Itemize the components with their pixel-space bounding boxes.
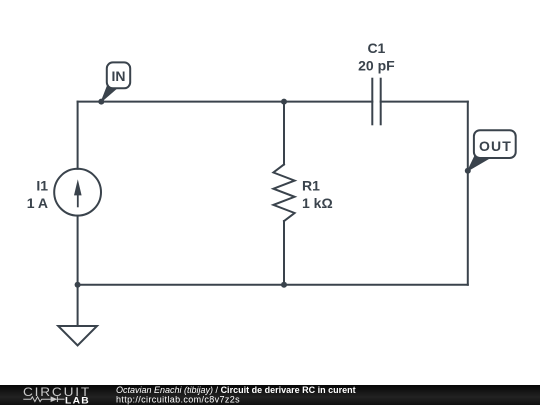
- net label OUT box: [474, 130, 516, 158]
- net label IN flag tail: [101, 84, 117, 102]
- svg-text:OUT: OUT: [479, 138, 512, 154]
- current source I1 arrow: [74, 179, 82, 207]
- wire top net IN horizontal: [78, 101, 373, 103]
- svg-text:I1: I1: [36, 178, 48, 194]
- wire middle vertical top (to R1): [283, 102, 285, 165]
- wire left vertical bottom (I1 to ground junction): [77, 216, 79, 326]
- svg-text:IN: IN: [112, 68, 126, 84]
- svg-text:LAB: LAB: [65, 396, 90, 405]
- svg-text:20 pF: 20 pF: [358, 57, 395, 73]
- svg-text:R1: R1: [302, 178, 320, 194]
- footer logo diode: [51, 396, 58, 402]
- junction bottom left: [75, 282, 81, 288]
- current source I1: [54, 169, 101, 216]
- svg-text:C1: C1: [367, 40, 385, 56]
- junction node OUT dot: [465, 168, 471, 174]
- wire middle vertical bottom (R1 to bottom wire): [283, 221, 285, 285]
- wire top right segment C1 to corner: [381, 101, 468, 103]
- svg-text:1 kΩ: 1 kΩ: [302, 195, 333, 211]
- junction bottom middle: [281, 282, 287, 288]
- wire bottom horizontal: [78, 284, 468, 286]
- svg-text:http://circuitlab.com/c8v7z2s: http://circuitlab.com/c8v7z2s: [116, 395, 240, 405]
- net label IN box: [107, 62, 130, 88]
- junction node IN dot: [98, 99, 104, 105]
- ground: [58, 326, 97, 346]
- footer bar: [0, 385, 540, 405]
- footer logo wire: [23, 396, 64, 402]
- capacitor C1 plate left: [371, 79, 373, 125]
- capacitor C1 plate right: [380, 79, 382, 125]
- net label OUT flag tail: [468, 154, 492, 171]
- resistor R1: [273, 164, 294, 221]
- wire left vertical top (IN to I1): [77, 102, 79, 169]
- svg-text:1 A: 1 A: [27, 195, 48, 211]
- wire right vertical (OUT net): [467, 102, 469, 285]
- junction top middle: [281, 99, 287, 105]
